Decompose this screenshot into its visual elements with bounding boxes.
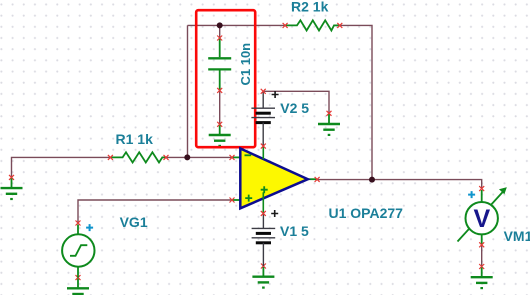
svg-text:U1 OPA277: U1 OPA277	[329, 205, 404, 221]
ground under VG1	[67, 275, 89, 295]
wire op-amp output to VM1	[317, 180, 482, 189]
resistor R1	[108, 152, 169, 162]
wire R2 right to output junction	[340, 25, 372, 179]
wire R1 right to op-amp inverting input	[166, 156, 232, 158]
ground under VM1	[471, 264, 493, 288]
wire VG1 to op-amp non-inverting input	[78, 200, 232, 223]
svg-text:C1 10n: C1 10n	[238, 43, 253, 86]
svg-text:V2 5: V2 5	[280, 100, 309, 116]
capacitor C1	[208, 36, 231, 93]
resistor R2	[283, 20, 343, 30]
battery V2	[251, 89, 278, 146]
ground under V1	[252, 264, 274, 288]
junction node at output	[369, 177, 375, 183]
wire V2 plus to its ground	[263, 91, 329, 113]
battery V1	[252, 210, 279, 266]
generator VG1	[62, 221, 94, 278]
svg-text:V: V	[474, 205, 491, 233]
junction node at R1 / inverting input	[184, 154, 190, 160]
wire VM1 bottom to ground	[481, 245, 483, 267]
wire C1 bottom to its ground	[219, 90, 221, 124]
op-amp U1	[230, 144, 320, 216]
svg-text:V1 5: V1 5	[280, 223, 309, 239]
svg-text:R2 1k: R2 1k	[291, 0, 329, 14]
selection rectangle around C1	[196, 10, 255, 147]
svg-text:VM1: VM1	[504, 228, 530, 244]
ground left	[1, 175, 23, 199]
junction node at C1 top	[217, 22, 223, 28]
wire feedback left vertical	[187, 25, 189, 157]
svg-text:VG1: VG1	[120, 214, 148, 230]
wire top horizontal to R2 left	[188, 24, 286, 26]
ground right of V2	[318, 111, 340, 135]
wire from left ground to R1	[12, 157, 111, 177]
ground under C1	[209, 122, 231, 146]
wire C1 top stub	[219, 25, 221, 38]
svg-text:R1 1k: R1 1k	[116, 131, 154, 147]
voltmeter VM1	[458, 186, 507, 247]
